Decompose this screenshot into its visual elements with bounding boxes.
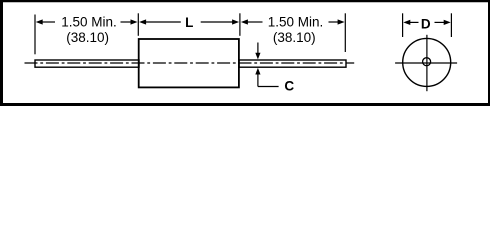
end view: lead cross-section circle D bbox=[403, 38, 451, 86]
dimension L: line and arrows bbox=[139, 19, 239, 24]
dimension D: line and arrows bbox=[403, 20, 450, 25]
end view horizontal centerline bbox=[395, 62, 457, 64]
resistor body bbox=[139, 39, 239, 87]
border frame bbox=[0, 0, 490, 106]
leader arrow down to lead top (dimension C) bbox=[255, 43, 260, 60]
dimension right lead: line and arrows bbox=[241, 19, 345, 24]
extension line at left lead end bbox=[34, 15, 36, 55]
svg-text:(38.10): (38.10) bbox=[273, 30, 316, 45]
svg-text:1.50 Min.: 1.50 Min. bbox=[268, 14, 324, 29]
svg-text:D: D bbox=[421, 16, 431, 31]
end view vertical centerline bbox=[426, 35, 428, 91]
svg-text:L: L bbox=[185, 15, 193, 30]
extension line at body left edge bbox=[137, 13, 139, 36]
extension line at body right edge bbox=[239, 13, 241, 36]
svg-text:(38.10): (38.10) bbox=[66, 30, 109, 45]
svg-text:C: C bbox=[284, 79, 294, 94]
lead right (axial wire) bbox=[239, 60, 346, 67]
leader arrow up to lead bottom with bent leader (dimension C) bbox=[255, 68, 278, 87]
svg-text:1.50 Min.: 1.50 Min. bbox=[61, 14, 117, 29]
lead left (axial wire) bbox=[35, 60, 139, 67]
extension line at circle right edge bbox=[450, 13, 452, 37]
wire: horizontal centerline (dash-dot) through leads and body bbox=[25, 62, 355, 64]
dimension left lead: line and arrows bbox=[36, 19, 138, 24]
extension line at right lead end bbox=[344, 13, 346, 52]
extension line at circle left edge bbox=[402, 13, 404, 37]
end view small circle (wire cross-section) bbox=[423, 58, 431, 66]
